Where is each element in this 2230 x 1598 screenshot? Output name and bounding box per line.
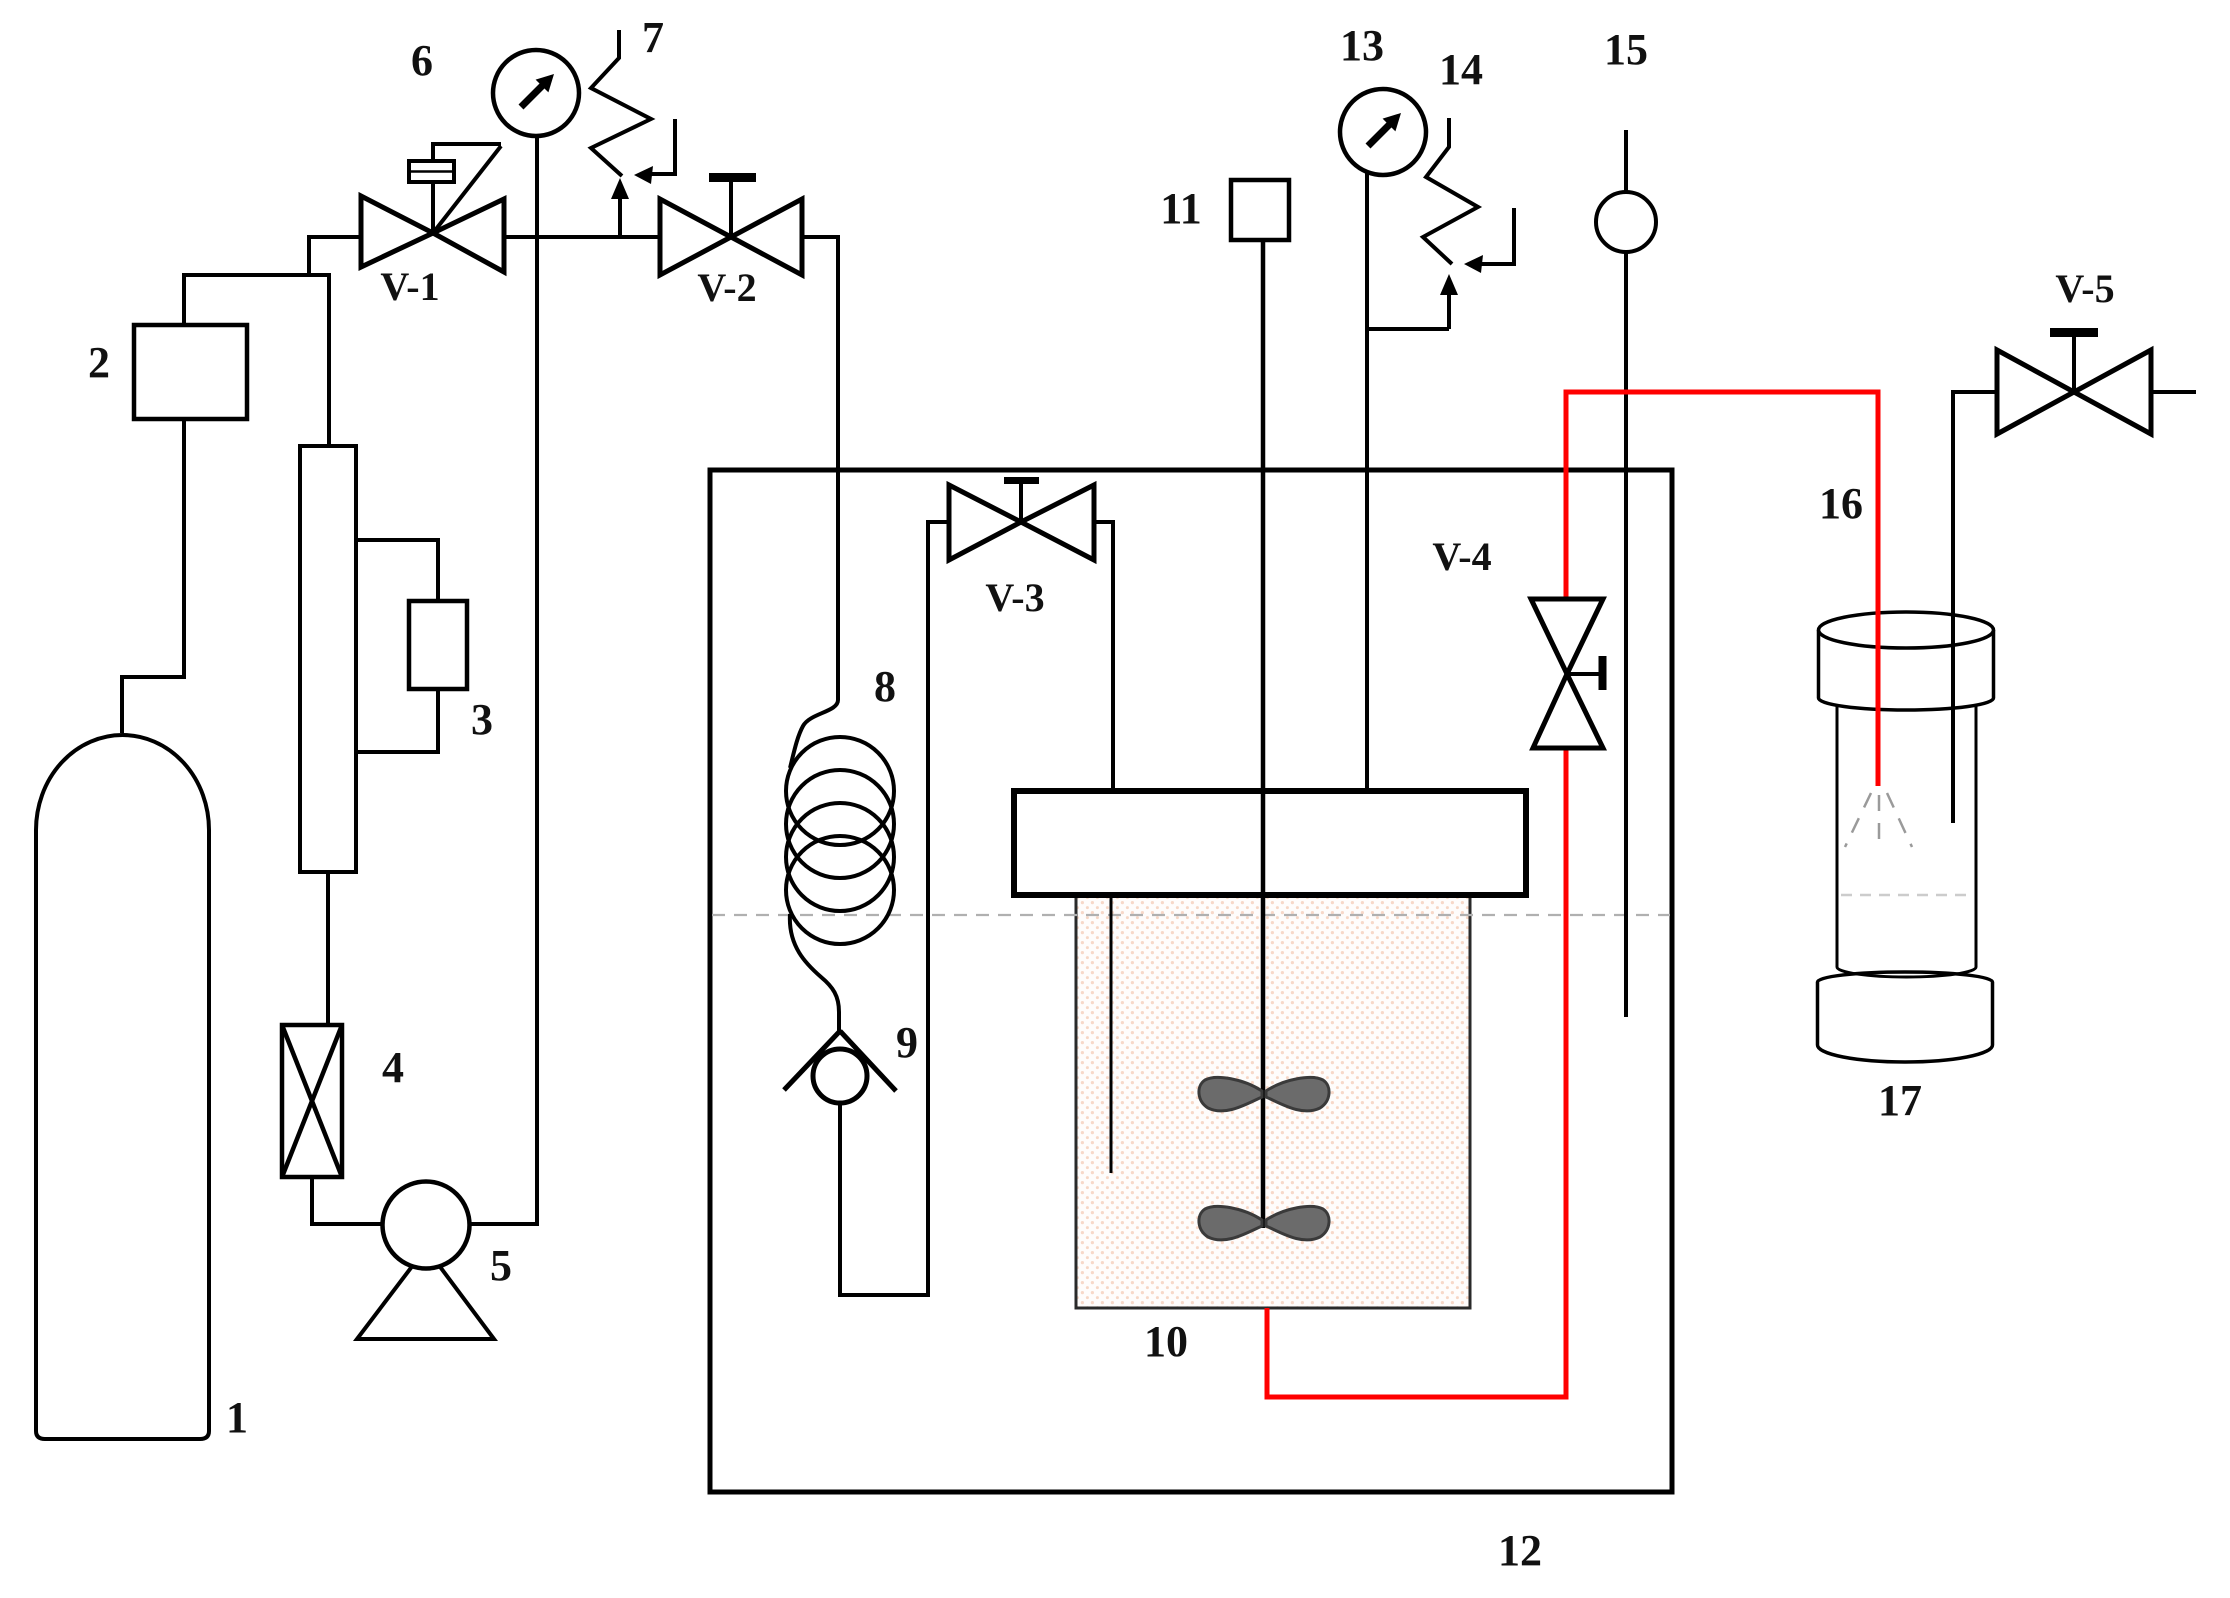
svg-text:9: 9 xyxy=(896,1018,918,1067)
spray inside separator xyxy=(1845,793,1912,849)
wire: lid to gauge 13 xyxy=(1365,172,1369,791)
pump 5 xyxy=(357,1248,494,1339)
svg-text:10: 10 xyxy=(1144,1317,1188,1366)
svg-text:12: 12 xyxy=(1498,1526,1542,1575)
svg-text:6: 6 xyxy=(411,36,433,85)
separator liquid level dashed xyxy=(1841,894,1972,897)
svg-text:V-1: V-1 xyxy=(380,264,439,309)
vessel lid xyxy=(1014,791,1526,895)
back-pressure regulator 14 xyxy=(1367,327,1449,331)
red transfer line from vessel 10 to V-4 xyxy=(1267,749,1566,1397)
wire: pump 5 to gauge 6 riser xyxy=(469,136,537,1224)
wire: junction up to V-1 xyxy=(309,237,361,275)
check valve 9 xyxy=(784,1031,840,1090)
wire: box 2 to column 3 xyxy=(184,275,329,446)
svg-text:V-2: V-2 xyxy=(697,265,756,310)
wire: pipe V-1 to V-2 xyxy=(505,235,660,239)
box 3 xyxy=(409,601,467,689)
wire: column 3 to box 3 loop xyxy=(356,540,438,752)
water bath 12 xyxy=(710,470,1672,1492)
svg-text:7: 7 xyxy=(642,13,664,62)
back-pressure regulator 7 xyxy=(591,30,675,237)
svg-text:17: 17 xyxy=(1878,1076,1922,1125)
svg-text:16: 16 xyxy=(1819,479,1863,528)
valve V-3 xyxy=(949,485,1094,560)
valve V-1 xyxy=(361,196,504,272)
vessel 10 body (stippled) xyxy=(1076,895,1470,1308)
pressure gauge 6 xyxy=(493,50,579,136)
svg-text:8: 8 xyxy=(874,662,896,711)
motor box 11 xyxy=(1231,180,1289,240)
svg-text:V-5: V-5 xyxy=(2055,266,2114,311)
svg-text:11: 11 xyxy=(1160,184,1202,233)
thermocouple in vessel xyxy=(1110,895,1113,1173)
svg-text:V-4: V-4 xyxy=(1432,534,1491,579)
wire: check valve 9 to V-3 xyxy=(840,522,949,1295)
svg-text:1: 1 xyxy=(226,1393,248,1442)
sampling line 15 xyxy=(1624,130,1628,192)
wire: V-3 to vessel lid xyxy=(1094,522,1113,791)
wire: V-2 to coil 8 xyxy=(802,237,838,700)
wire: cylinder 1 to box 2 xyxy=(122,419,184,733)
svg-text:14: 14 xyxy=(1439,45,1483,94)
bath liquid level (dashed) xyxy=(712,914,1670,916)
impeller upper xyxy=(1199,1077,1329,1110)
wire: filter 4 to pump 5 xyxy=(312,1177,383,1224)
svg-text:V-3: V-3 xyxy=(985,575,1044,620)
box 2 xyxy=(134,325,247,419)
pressure gauge 13 xyxy=(1340,89,1426,175)
valve V-2 xyxy=(660,199,802,275)
red transfer line 16: V-4 to separator xyxy=(1566,392,1878,786)
wire: V-5 to separator dip tube xyxy=(1953,392,1997,823)
impeller lower xyxy=(1199,1206,1329,1239)
wire: column 3 to filter 4 xyxy=(326,872,330,1025)
wire: V-5 outlet xyxy=(2151,390,2196,394)
column 3 xyxy=(300,446,356,872)
svg-text:4: 4 xyxy=(382,1043,404,1092)
separator 17 xyxy=(1818,612,1994,1062)
valve V-5 xyxy=(1997,350,2151,434)
stirrer shaft xyxy=(1261,240,1266,1228)
coil 8 xyxy=(786,700,894,1032)
svg-text:2: 2 xyxy=(88,338,110,387)
svg-text:15: 15 xyxy=(1604,25,1648,74)
svg-text:13: 13 xyxy=(1340,21,1384,70)
valve V-4 xyxy=(1531,599,1603,748)
gas cylinder 1 xyxy=(36,735,209,1439)
filter 4 xyxy=(282,1025,342,1177)
svg-text:5: 5 xyxy=(490,1241,512,1290)
svg-text:3: 3 xyxy=(471,695,493,744)
